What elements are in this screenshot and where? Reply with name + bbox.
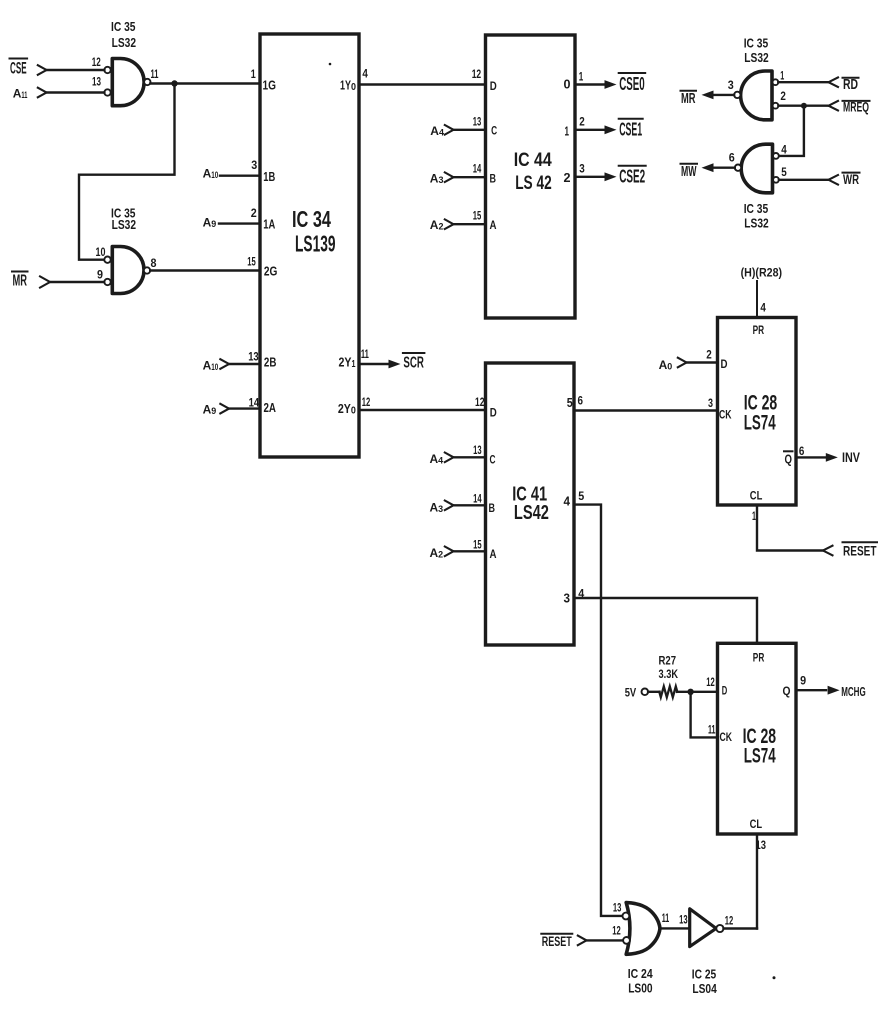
svg-text:15: 15 <box>247 254 256 268</box>
svg-text:12: 12 <box>706 675 715 689</box>
svg-text:CSE: CSE <box>10 60 27 78</box>
svg-text:IC 35: IC 35 <box>744 201 769 216</box>
svg-text:CK: CK <box>719 407 732 421</box>
svg-text:WR: WR <box>843 171 859 187</box>
gate U-IC35c (IC35 LS32, top-right, mirrored) <box>741 71 772 120</box>
svg-text:CSE0: CSE0 <box>619 74 645 94</box>
svg-text:LS74: LS74 <box>744 744 776 767</box>
svg-text:3: 3 <box>708 396 713 410</box>
svg-text:14: 14 <box>473 161 482 175</box>
svg-text:LS139: LS139 <box>295 231 336 257</box>
svg-text:D: D <box>490 79 497 93</box>
svg-text:2B: 2B <box>264 355 277 370</box>
svg-text:1: 1 <box>780 69 784 83</box>
svg-text:PR: PR <box>753 323 765 337</box>
wire IC35a pin11 to IC34 pin1 (1G) <box>150 82 260 84</box>
svg-text:SCR: SCR <box>403 355 424 372</box>
svg-text:A10: A10 <box>203 166 219 181</box>
svg-text:13: 13 <box>613 901 622 915</box>
wire junction down to IC28b CK / pin 11 <box>691 692 718 738</box>
svg-text:RD: RD <box>843 77 858 93</box>
svg-text:6: 6 <box>799 444 805 458</box>
svg-text:A9: A9 <box>203 403 217 418</box>
svg-text:2A: 2A <box>264 400 277 415</box>
svg-text:IC 35: IC 35 <box>111 19 136 34</box>
input MREQ <box>778 104 828 106</box>
svg-text:CK: CK <box>720 730 733 744</box>
svg-text:2G: 2G <box>264 263 278 278</box>
wire IC41 pin3 to IC28b PR <box>574 598 757 643</box>
svg-text:12: 12 <box>475 395 485 409</box>
svg-text:A3: A3 <box>430 171 444 186</box>
junction node on MREQ wire <box>801 103 807 109</box>
svg-text:13: 13 <box>473 114 482 128</box>
wire IC28a CL to RESET <box>757 505 823 551</box>
svg-text:LS32: LS32 <box>744 216 768 231</box>
svg-text:2Y1: 2Y1 <box>339 355 356 371</box>
input WR <box>779 179 829 181</box>
svg-text:CL: CL <box>750 489 763 503</box>
svg-text:A0: A0 <box>659 358 673 373</box>
wire A11 to IC35a pin13 <box>47 91 105 93</box>
svg-text:12: 12 <box>362 395 371 409</box>
svg-text:C: C <box>490 452 496 466</box>
svg-text:8: 8 <box>151 256 157 270</box>
svg-text:CSE2: CSE2 <box>619 167 645 187</box>
svg-text:11: 11 <box>662 911 670 925</box>
svg-text:LS42: LS42 <box>514 502 549 524</box>
decoder IC41 LS42 <box>486 363 575 645</box>
svg-text:A4: A4 <box>430 452 444 467</box>
svg-text:11: 11 <box>708 722 716 736</box>
svg-text:1Y0: 1Y0 <box>340 78 356 94</box>
wire IC24 pin11 to IC25 pin13 <box>660 927 690 929</box>
wire IC28b CL down to IC25 output <box>756 834 758 929</box>
svg-text:IC 25: IC 25 <box>692 967 716 982</box>
svg-text:D: D <box>721 357 728 371</box>
speck <box>773 976 776 979</box>
svg-text:3: 3 <box>728 78 734 92</box>
gate U-IC35d (IC35 LS32, lower-right, mirrored) <box>741 144 772 193</box>
svg-text:1: 1 <box>579 69 584 83</box>
svg-text:4: 4 <box>362 67 368 81</box>
junction node at IC35a output <box>171 80 177 86</box>
svg-text:LS 42: LS 42 <box>515 173 552 194</box>
svg-text:2: 2 <box>780 89 786 103</box>
svg-text:14: 14 <box>473 492 482 506</box>
svg-text:6: 6 <box>578 393 584 407</box>
input RESET (top) <box>843 541 878 543</box>
svg-text:INV: INV <box>842 450 860 465</box>
svg-text:RESET: RESET <box>542 934 572 949</box>
svg-text:IC 34: IC 34 <box>292 206 331 232</box>
svg-text:5: 5 <box>567 395 573 410</box>
gate IC24 LS00 (negative-input OR form) <box>626 903 660 955</box>
svg-text:D: D <box>490 406 497 420</box>
svg-text:A9: A9 <box>203 216 217 231</box>
gate U-IC35b (IC35 LS32, lower-left) <box>112 247 144 294</box>
svg-text:13: 13 <box>248 349 259 363</box>
wire MREQ junction to IC35d pin4 <box>779 106 804 156</box>
wire MR to IC35b pin9 <box>50 281 104 283</box>
input RD <box>778 81 828 83</box>
svg-text:1A: 1A <box>263 216 275 231</box>
svg-text:A4: A4 <box>430 124 444 139</box>
svg-text:1B: 1B <box>263 169 275 184</box>
svg-text:IC 24: IC 24 <box>628 966 654 981</box>
svg-text:R27: R27 <box>659 654 677 668</box>
svg-text:9: 9 <box>97 267 103 281</box>
svg-text:15: 15 <box>473 538 482 552</box>
svg-text:Q: Q <box>785 451 793 466</box>
svg-text:LS32: LS32 <box>112 217 136 232</box>
junction node at R27 output <box>687 689 693 695</box>
svg-text:10: 10 <box>96 245 106 259</box>
svg-text:A3: A3 <box>430 501 444 516</box>
inverter IC25 LS04 <box>690 909 716 947</box>
svg-text:IC 35: IC 35 <box>744 36 769 51</box>
svg-text:PR: PR <box>753 650 765 664</box>
svg-text:MR: MR <box>13 273 28 290</box>
decoder IC44 LS42 <box>486 35 576 318</box>
svg-text:1: 1 <box>752 509 756 523</box>
svg-text:A: A <box>490 218 497 232</box>
resistor R27 3.3K <box>659 686 677 697</box>
svg-text:MW: MW <box>681 163 697 180</box>
wire IC41 pin4 right then down to IC24 pin13 <box>574 505 622 916</box>
output SCR from IC34 2Y1 <box>359 363 390 365</box>
input CSE <box>10 58 28 60</box>
wire CSE to IC35a pin12 <box>47 69 105 71</box>
svg-text:15: 15 <box>473 208 482 222</box>
wire IC35b pin8 to IC34 pin15 (2G) <box>150 269 260 271</box>
svg-text:LS32: LS32 <box>744 50 768 65</box>
svg-text:13: 13 <box>679 912 688 926</box>
svg-text:IC 44: IC 44 <box>514 150 552 171</box>
svg-text:5: 5 <box>781 165 787 179</box>
svg-text:A2: A2 <box>430 218 444 233</box>
svg-text:3.3K: 3.3K <box>659 667 679 681</box>
svg-text:A11: A11 <box>13 87 28 102</box>
wire (H)(R28) to IC28a PR / pin 4 <box>756 281 758 318</box>
wire junction down-left-down to IC35b pin10 <box>79 84 175 260</box>
svg-text:A: A <box>490 547 497 561</box>
svg-text:A10: A10 <box>203 358 219 373</box>
svg-text:5: 5 <box>578 489 584 503</box>
5V terminal circle <box>642 689 649 696</box>
svg-text:B: B <box>489 501 496 515</box>
svg-text:D: D <box>722 684 728 698</box>
svg-text:3: 3 <box>579 162 585 176</box>
svg-text:LS32: LS32 <box>112 35 136 50</box>
svg-text:4: 4 <box>781 143 787 157</box>
svg-text:1: 1 <box>565 123 570 138</box>
wire IC34 1Y0 (pin4) to IC44 D (pin12) <box>359 83 486 85</box>
svg-text:5V: 5V <box>625 685 637 699</box>
svg-text:LS00: LS00 <box>628 980 652 995</box>
svg-text:11: 11 <box>361 347 369 361</box>
svg-text:2: 2 <box>706 347 712 361</box>
svg-text:MR: MR <box>681 90 696 107</box>
svg-text:LS74: LS74 <box>744 411 776 434</box>
input RESET (bottom) <box>541 933 572 935</box>
wire resistor to IC28b D / pin 12 <box>677 691 718 693</box>
svg-text:RESET: RESET <box>843 542 877 558</box>
output MW arrow <box>713 166 735 168</box>
svg-text:CSE1: CSE1 <box>619 120 642 140</box>
decoder IC34 LS139 <box>260 34 359 457</box>
svg-text:MCHG: MCHG <box>841 684 866 699</box>
svg-text:A2: A2 <box>430 546 444 561</box>
svg-text:3: 3 <box>564 590 571 605</box>
svg-text:2Y0: 2Y0 <box>338 401 356 417</box>
svg-text:MREQ: MREQ <box>843 99 869 115</box>
svg-text:4: 4 <box>760 300 766 314</box>
gate U-IC35a (IC35 LS32, top-left, 2-input with inverting inputs/output) <box>112 59 144 106</box>
svg-text:12: 12 <box>725 913 734 927</box>
output MR arrow <box>713 94 734 96</box>
svg-text:CL: CL <box>750 817 763 831</box>
svg-text:0: 0 <box>564 77 571 92</box>
flip-flop IC28a LS74 <box>718 318 797 506</box>
svg-text:13: 13 <box>473 443 482 457</box>
wire IC25 output to IC28b CL <box>724 927 758 929</box>
svg-text:1G: 1G <box>263 78 277 93</box>
svg-text:2: 2 <box>251 206 257 220</box>
svg-text:6: 6 <box>729 151 735 165</box>
svg-text:9: 9 <box>800 673 806 687</box>
svg-text:B: B <box>490 171 497 185</box>
svg-text:4: 4 <box>564 493 571 508</box>
svg-text:C: C <box>491 124 497 138</box>
svg-text:3: 3 <box>251 158 257 172</box>
wire IC34 2Y0 (pin12) to IC41 D (pin12) <box>359 409 486 411</box>
svg-text:12: 12 <box>612 924 621 938</box>
svg-text:12: 12 <box>472 67 482 81</box>
input MR <box>12 271 28 273</box>
svg-text:LS04: LS04 <box>692 981 717 996</box>
svg-text:2: 2 <box>564 170 571 185</box>
flip-flop IC28b LS74 <box>718 643 797 834</box>
svg-text:12: 12 <box>92 55 101 69</box>
svg-text:11: 11 <box>151 67 159 81</box>
svg-text:1: 1 <box>251 67 256 81</box>
IC28a Q-bar output / pin 6 -> INV <box>784 450 793 452</box>
svg-text:Q: Q <box>783 684 791 698</box>
svg-text:(H)(R28): (H)(R28) <box>741 265 783 279</box>
wire 5V to resistor <box>648 691 660 693</box>
svg-text:13: 13 <box>92 74 101 88</box>
svg-text:2: 2 <box>579 115 585 129</box>
